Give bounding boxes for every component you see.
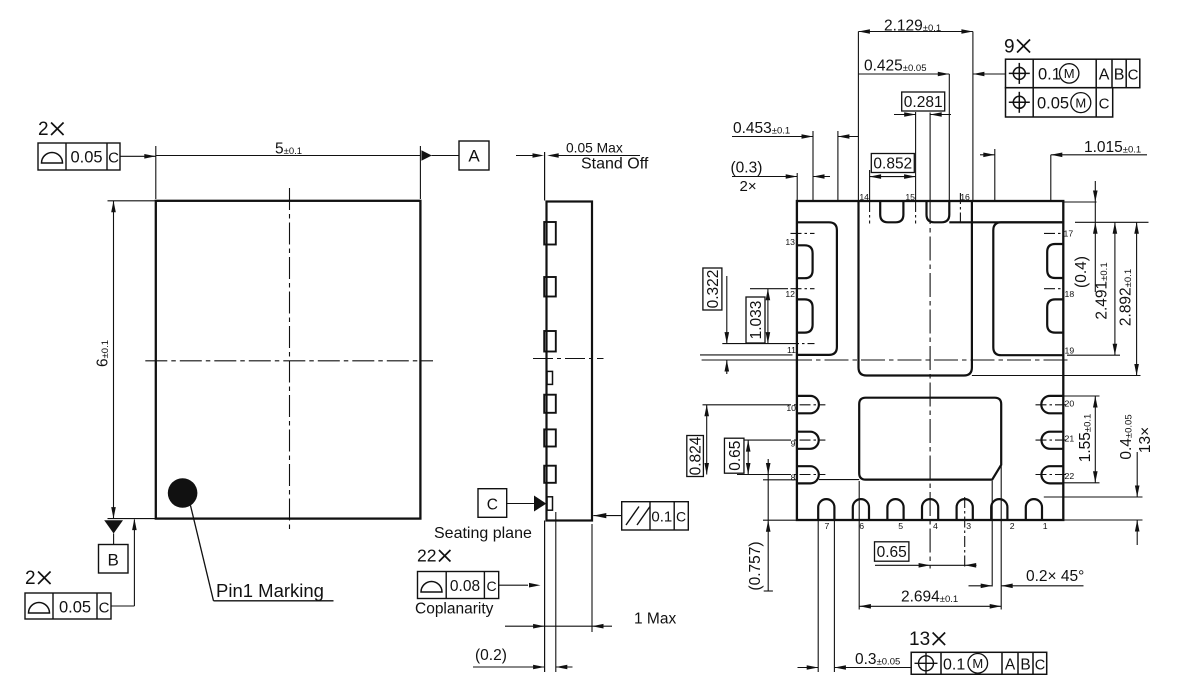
- svg-text:11: 11: [787, 345, 796, 355]
- svg-text:Coplanarity: Coplanarity: [415, 601, 494, 618]
- svg-text:0.05: 0.05: [70, 149, 102, 167]
- svg-text:0.2× 45°: 0.2× 45°: [1026, 568, 1084, 585]
- svg-text:(0.2): (0.2): [475, 647, 507, 664]
- svg-text:1.033: 1.033: [748, 301, 765, 340]
- svg-text:16: 16: [960, 192, 970, 202]
- svg-text:0.65: 0.65: [727, 441, 744, 471]
- svg-text:M: M: [972, 656, 983, 671]
- svg-text:13: 13: [785, 237, 795, 247]
- svg-text:0.824: 0.824: [688, 436, 705, 475]
- svg-text:18: 18: [1065, 289, 1075, 299]
- svg-text:(0.3): (0.3): [731, 160, 763, 177]
- svg-text:C: C: [486, 578, 496, 594]
- svg-text:0.05 Max: 0.05 Max: [566, 141, 623, 156]
- svg-text:C: C: [487, 497, 498, 514]
- svg-text:0.322: 0.322: [705, 270, 722, 309]
- svg-text:A: A: [1099, 67, 1110, 84]
- svg-text:M: M: [1075, 95, 1086, 110]
- svg-text:(0.757): (0.757): [747, 541, 764, 590]
- svg-text:0.05: 0.05: [1037, 95, 1069, 113]
- svg-text:7: 7: [825, 521, 830, 531]
- svg-text:19: 19: [1065, 346, 1075, 356]
- svg-text:13×: 13×: [1137, 427, 1154, 453]
- svg-text:B: B: [108, 551, 119, 570]
- svg-text:B: B: [1114, 67, 1125, 84]
- svg-text:Stand Off: Stand Off: [581, 156, 649, 173]
- svg-text:2: 2: [1010, 521, 1015, 531]
- svg-text:17: 17: [1064, 229, 1074, 239]
- svg-text:0.05: 0.05: [59, 599, 91, 617]
- svg-text:22: 22: [417, 546, 436, 566]
- svg-text:22: 22: [1065, 471, 1075, 481]
- svg-text:14: 14: [859, 192, 869, 202]
- svg-text:0.852: 0.852: [873, 156, 912, 173]
- svg-text:Seating plane: Seating plane: [434, 525, 532, 542]
- svg-text:(0.4): (0.4): [1073, 256, 1090, 288]
- svg-text:Pin1 Marking: Pin1 Marking: [216, 580, 324, 601]
- svg-text:1 Max: 1 Max: [634, 611, 676, 628]
- svg-text:0.08: 0.08: [450, 578, 480, 595]
- svg-text:4: 4: [933, 521, 938, 531]
- svg-text:10: 10: [786, 403, 796, 413]
- svg-text:9: 9: [791, 439, 796, 449]
- svg-text:1: 1: [1043, 521, 1048, 531]
- svg-text:0.65: 0.65: [877, 544, 907, 561]
- svg-text:C: C: [1099, 96, 1110, 113]
- svg-text:C: C: [108, 150, 119, 167]
- svg-text:C: C: [1128, 67, 1139, 84]
- svg-text:M: M: [1064, 66, 1075, 81]
- svg-text:20: 20: [1065, 399, 1075, 409]
- svg-text:0.1: 0.1: [1038, 66, 1061, 84]
- svg-text:8: 8: [791, 473, 796, 483]
- svg-text:2: 2: [38, 119, 49, 140]
- svg-text:A: A: [468, 147, 480, 166]
- svg-text:6: 6: [859, 521, 864, 531]
- svg-text:15: 15: [905, 192, 915, 202]
- svg-text:21: 21: [1065, 434, 1075, 444]
- svg-text:9: 9: [1004, 37, 1015, 58]
- svg-text:C: C: [1035, 658, 1045, 674]
- svg-text:B: B: [1020, 657, 1030, 674]
- svg-text:C: C: [99, 600, 110, 617]
- svg-text:3: 3: [966, 521, 971, 531]
- svg-text:5: 5: [898, 521, 903, 531]
- svg-text:13: 13: [909, 629, 930, 650]
- svg-text:0.1: 0.1: [651, 509, 672, 526]
- svg-text:C: C: [676, 509, 686, 525]
- svg-text:2×: 2×: [740, 178, 757, 195]
- svg-text:A: A: [1005, 657, 1016, 674]
- svg-text:12: 12: [785, 289, 795, 299]
- svg-text:0.1: 0.1: [943, 657, 965, 674]
- svg-text:2: 2: [25, 568, 36, 589]
- svg-text:0.281: 0.281: [904, 94, 943, 111]
